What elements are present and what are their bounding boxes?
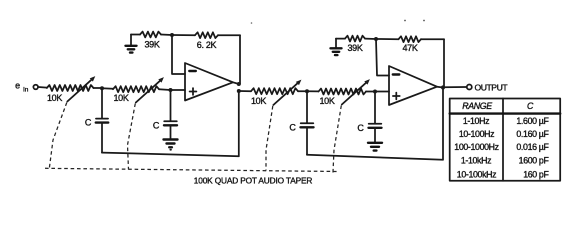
svg-text:6. 2K: 6. 2K bbox=[197, 40, 217, 50]
svg-text:1-10Hz: 1-10Hz bbox=[463, 116, 489, 126]
ground (C4) bbox=[368, 142, 382, 144]
op-amp U2 bbox=[389, 66, 437, 105]
node B (op-amp U1 + input / C2) bbox=[169, 88, 173, 92]
wire ground corner to 39K bbox=[131, 34, 140, 36]
node U1 output rail tap bbox=[237, 89, 241, 93]
resistor 47K bbox=[376, 38, 399, 40]
wire: stage-1 bottom feedback (C1 to U1 output) bbox=[102, 91, 239, 156]
ground (39K stage 2) bbox=[335, 39, 337, 48]
svg-text:39K: 39K bbox=[144, 40, 159, 50]
wire output node to terminal bbox=[443, 86, 466, 88]
svg-text:0.160 µF: 0.160 µF bbox=[516, 129, 549, 139]
wire node C to R4 bbox=[307, 90, 319, 92]
ground (C2) bbox=[164, 138, 178, 140]
node U1 output (apex) bbox=[237, 82, 241, 86]
wire U1 apex to output node bbox=[233, 82, 239, 84]
svg-text:10K: 10K bbox=[47, 93, 62, 103]
node D (op-amp U2 + input / C4) bbox=[373, 90, 377, 94]
svg-text:10K: 10K bbox=[113, 93, 128, 103]
wire node F2 down to U2 - input bbox=[376, 39, 389, 76]
resistor R3 10K (with pot P3 section) bbox=[251, 88, 298, 94]
svg-text:In: In bbox=[23, 87, 29, 94]
pot P1 wiper arrow bbox=[67, 78, 93, 101]
capacitor C3 bbox=[306, 91, 308, 123]
op-amp U1 bbox=[185, 63, 233, 101]
svg-text:1600 pF: 1600 pF bbox=[519, 156, 550, 166]
svg-text:C: C bbox=[153, 121, 160, 131]
resistor 39K (stage 1) bbox=[140, 32, 161, 38]
speck bbox=[251, 22, 253, 24]
wire node D to U2 + input bbox=[375, 91, 389, 93]
svg-text:C: C bbox=[289, 123, 296, 133]
dashed wiper link P1 bbox=[49, 103, 67, 169]
svg-text:39K: 39K bbox=[347, 43, 362, 53]
svg-text:160 pF: 160 pF bbox=[523, 169, 549, 179]
pot P4 wiper arrow bbox=[342, 81, 368, 104]
node A (junction R1/C1) bbox=[100, 86, 104, 90]
svg-text:C: C bbox=[527, 101, 534, 111]
wire: input lead bbox=[38, 86, 47, 89]
speck bbox=[404, 20, 406, 22]
capacitor C4 bbox=[374, 92, 376, 124]
table header underline bbox=[450, 112, 561, 114]
dashed gang bus (quad pot) bbox=[45, 168, 338, 171]
dashed wiper link P2 bbox=[128, 104, 136, 170]
capacitor C1 bbox=[101, 88, 103, 118]
output terminal circle bbox=[467, 85, 472, 90]
svg-text:OUTPUT: OUTPUT bbox=[475, 83, 509, 93]
wire node B to U1 + input bbox=[171, 89, 186, 91]
dashed wiper link P4 bbox=[333, 106, 341, 173]
resistor 39K (stage 2) bbox=[345, 36, 365, 42]
resistor R2 10K (with pot P2 section) bbox=[113, 86, 159, 92]
svg-text:100K QUAD POT AUDIO TAPER: 100K QUAD POT AUDIO TAPER bbox=[194, 176, 313, 186]
node F1 (feedback junction U1) bbox=[170, 33, 174, 37]
svg-text:10-100Hz: 10-100Hz bbox=[459, 129, 494, 139]
table column divider bbox=[502, 99, 504, 181]
pot P3 wiper arrow bbox=[273, 82, 299, 105]
svg-text:1.600 µF: 1.600 µF bbox=[516, 116, 549, 126]
node F2 (feedback junction U2) bbox=[374, 37, 378, 41]
pot P2 wiper arrow bbox=[136, 79, 162, 102]
wire 47K down to U2 output bbox=[443, 39, 445, 87]
svg-text:C: C bbox=[357, 123, 364, 133]
wire U1 output to R3 bbox=[239, 90, 251, 92]
table: C value table frame bbox=[450, 99, 561, 181]
speck bbox=[423, 20, 425, 22]
node C (junction R3/C3) bbox=[305, 89, 309, 93]
svg-text:e: e bbox=[15, 81, 20, 91]
svg-text:RANGE: RANGE bbox=[462, 101, 492, 111]
svg-text:0.016 µF: 0.016 µF bbox=[516, 142, 549, 152]
svg-text:47K: 47K bbox=[402, 43, 417, 53]
dashed wiper link P3 bbox=[266, 106, 273, 171]
node U2 output bbox=[441, 85, 445, 89]
svg-text:C: C bbox=[85, 118, 92, 128]
wire node A to R2 bbox=[102, 87, 113, 90]
capacitor C2 bbox=[170, 90, 172, 121]
wire: stage-2 bottom feedback (C3 to U2 output) bbox=[307, 88, 443, 160]
resistor R4 10K (with pot P4 section) bbox=[319, 89, 367, 95]
resistor R1 10K (with pot P1 section) bbox=[47, 85, 94, 91]
wire 6.2K down to U1 output bbox=[239, 35, 240, 84]
svg-text:10K: 10K bbox=[251, 96, 266, 106]
ground (39K stage 1) bbox=[130, 35, 132, 46]
svg-text:10K: 10K bbox=[319, 96, 334, 106]
wire U2 apex to output node bbox=[437, 86, 443, 89]
wire ground corner to 39K (stage 2) bbox=[336, 38, 345, 40]
svg-text:10-100kHz: 10-100kHz bbox=[457, 169, 496, 179]
resistor 6.2K bbox=[172, 34, 195, 36]
svg-text:100-1000Hz: 100-1000Hz bbox=[454, 142, 498, 152]
wire node F1 down to U1 - input bbox=[172, 35, 185, 74]
svg-text:1-10kHz: 1-10kHz bbox=[461, 156, 491, 166]
